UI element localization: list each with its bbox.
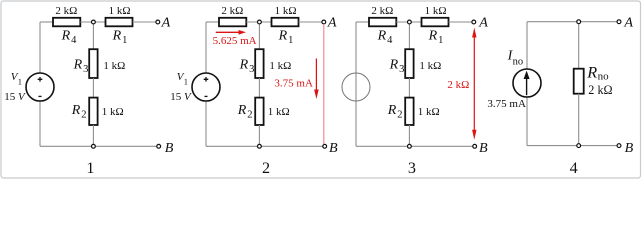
wire bottom wire Rno to terminal B (panel 4) — [579, 145, 617, 147]
resistor R1 (panel 3) body — [422, 18, 449, 27]
svg-text:B: B — [625, 140, 634, 156]
svg-text:1 kΩ: 1 kΩ — [103, 60, 125, 72]
wire wire top node to R3 (panel 3) — [408, 22, 410, 49]
resistor R4 (panel 2) body — [219, 18, 246, 27]
svg-text:A: A — [327, 14, 337, 30]
resistor R1 (panel 2) body — [272, 18, 299, 27]
svg-text:15 V: 15 V — [4, 91, 26, 103]
node junction top of ladder branch (panel 2) — [258, 20, 262, 24]
voltage source V1 (panel 2) — [192, 73, 220, 101]
wire wire R4 to R1 (panel 2) — [246, 21, 271, 23]
wire wire top node to R3 (panel 2) — [258, 22, 260, 49]
svg-text:2 kΩ: 2 kΩ — [371, 5, 393, 17]
wire wire top node to R3 (panel 1) — [92, 22, 94, 49]
svg-text:2 kΩ: 2 kΩ — [447, 79, 469, 91]
equivalent resistance arrow A-B (panel 3) — [472, 28, 476, 140]
svg-text:A: A — [161, 14, 171, 30]
svg-text:A: A — [623, 14, 633, 30]
resistor R1 (panel 1) body — [106, 18, 133, 27]
wire wire R2 to bottom (panel 3) — [408, 125, 410, 146]
svg-text:B: B — [165, 140, 174, 156]
wire left rail (panel 4) — [526, 22, 528, 146]
node terminal A (panel 1) — [156, 20, 160, 24]
wire wire R3 to R2 (panel 1) — [92, 78, 94, 98]
voltage source V1 (panel 1) — [26, 73, 54, 101]
node terminal B (panel 1) — [157, 144, 161, 148]
wire bottom wire source to Rno (panel 4) — [527, 145, 579, 147]
node junction top of ladder branch (panel 3) — [408, 20, 412, 24]
current arrow through R4 (panel 2) — [216, 30, 246, 35]
svg-text:15 V: 15 V — [170, 91, 192, 103]
deactivated source (zeroed V1, panel 3) — [342, 73, 370, 101]
resistor R3 (panel 3) body — [405, 49, 413, 78]
wire wire top junction to Rno (panel 4) — [578, 22, 580, 69]
svg-text:1 kΩ: 1 kΩ — [109, 5, 131, 17]
wire top wire Rno to terminal A (panel 4) — [579, 21, 617, 23]
resistor R2 (panel 2) body — [255, 98, 263, 125]
node junction bottom of ladder branch (panel 2) — [258, 144, 262, 148]
wire wire R3 to R2 (panel 2) — [258, 78, 260, 98]
svg-text:5.625 mA: 5.625 mA — [213, 35, 257, 47]
svg-text:1 kΩ: 1 kΩ — [102, 106, 124, 118]
node terminal B (panel 3) — [473, 144, 477, 148]
wire top wire source to Rno (panel 4) — [527, 21, 579, 23]
wire wire R3 to R2 (panel 3) — [408, 78, 410, 98]
svg-text:B: B — [479, 140, 488, 156]
svg-text:1 kΩ: 1 kΩ — [269, 60, 291, 72]
wire short circuit wire A-B (panel 2) — [323, 24, 325, 144]
node junction bottom of ladder branch (panel 1) — [92, 144, 96, 148]
svg-text:2: 2 — [262, 159, 270, 177]
node junction top of ladder branch (panel 1) — [92, 20, 96, 24]
node terminal A (panel 2) — [322, 20, 326, 24]
wire left rail panel 2 — [205, 22, 207, 146]
svg-text:4: 4 — [570, 159, 578, 177]
wire wire R1 to terminal A (panel 3) — [449, 21, 472, 23]
wire wire R1 to terminal A (panel 1) — [133, 21, 156, 23]
svg-text:B: B — [329, 140, 338, 156]
wire wire R4 to R1 (panel 3) — [396, 21, 421, 23]
svg-text:3: 3 — [408, 159, 416, 177]
current source Ino (panel 4) — [513, 69, 541, 97]
svg-text:2 kΩ: 2 kΩ — [588, 83, 612, 97]
node junction bottom of ladder branch (panel 3) — [408, 144, 412, 148]
wire bottom wire (panel 3) — [356, 145, 473, 147]
resistor R3 (panel 2) body — [255, 49, 263, 78]
resistor R4 (panel 1) body — [53, 18, 80, 27]
svg-text:A: A — [478, 14, 488, 30]
wire wire R1 to terminal A (panel 2) — [299, 21, 322, 23]
resistor R4 (panel 3) body — [369, 18, 396, 27]
node terminal B (panel 4) — [617, 144, 621, 148]
wire bottom wire (panel 1) — [40, 145, 157, 147]
svg-text:2 kΩ: 2 kΩ — [221, 5, 243, 17]
node junction bottom of Rno (panel 4) — [577, 144, 581, 148]
wire left rail panel 1 — [39, 22, 41, 146]
wire top wire from rail to R4 (panel 1) — [40, 21, 53, 23]
svg-text:3.75 mA: 3.75 mA — [487, 98, 526, 110]
wire wire R2 to bottom (panel 2) — [258, 125, 260, 146]
resistor R2 (panel 1) body — [89, 98, 97, 125]
svg-text:1: 1 — [86, 159, 94, 177]
wire wire R2 to bottom (panel 1) — [92, 125, 94, 146]
wire wire R4 to R1 (panel 1) — [80, 21, 105, 23]
node terminal A (panel 4) — [617, 20, 621, 24]
resistor R2 (panel 3) body — [405, 98, 413, 125]
wire wire Rno to bottom junction (panel 4) — [578, 94, 580, 146]
node junction top of Rno (panel 4) — [577, 20, 581, 24]
svg-text:1 kΩ: 1 kΩ — [275, 5, 297, 17]
svg-text:1 kΩ: 1 kΩ — [418, 106, 440, 118]
svg-text:2 kΩ: 2 kΩ — [55, 5, 77, 17]
resistor R3 (panel 1) body — [89, 49, 97, 78]
svg-text:1 kΩ: 1 kΩ — [268, 106, 290, 118]
resistor Rno (panel 4) body — [574, 69, 584, 94]
short-circuit current arrow (panel 2) — [314, 59, 319, 100]
wire left rail panel 3 — [355, 22, 357, 146]
wire bottom wire (panel 2) — [206, 145, 323, 147]
svg-text:1 kΩ: 1 kΩ — [419, 60, 441, 72]
wire top wire from rail to R4 (panel 2) — [206, 21, 219, 23]
node terminal B (panel 2) — [323, 144, 327, 148]
figure frame — [1, 1, 641, 178]
node terminal A (panel 3) — [472, 20, 476, 24]
wire top wire from rail to R4 (panel 3) — [356, 21, 369, 23]
svg-text:3.75 mA: 3.75 mA — [274, 77, 313, 89]
svg-text:1 kΩ: 1 kΩ — [425, 5, 447, 17]
